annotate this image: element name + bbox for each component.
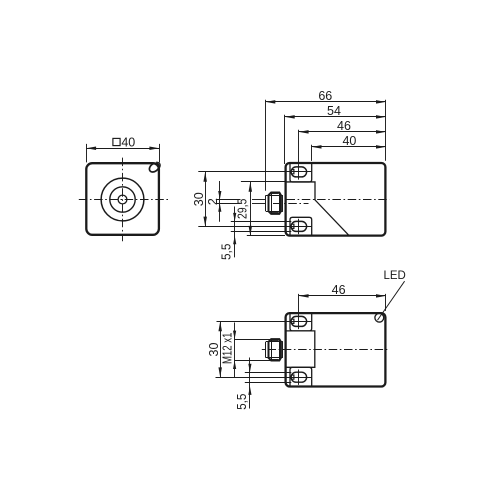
dimension 46 right extension line (top-face view) <box>385 294 387 311</box>
top-face view bottom slot lower edge extension line <box>245 382 291 384</box>
top-face view bottom mounting slot stadium <box>291 372 307 382</box>
dimension 30 line with arrows (slot spacing) <box>205 172 207 227</box>
side view top slot keyway notch <box>292 170 294 174</box>
top-face view top slot vertical centerline (46 extension) <box>298 294 300 329</box>
side view body bottom extension line <box>247 235 285 237</box>
side view recess floor edge with chamfer diagonal <box>285 182 349 235</box>
dimension 2 line (connector offset) <box>219 181 221 222</box>
dimension 46 line with arrows (top-face view) <box>299 295 386 297</box>
dimension 54 line with arrows <box>285 116 386 118</box>
side view body centerline extension for dim 2 <box>216 199 241 201</box>
top-face view connector boss step outline <box>286 331 315 367</box>
dimension 66 extension line at connector face <box>265 100 267 191</box>
dimension M12x1 bottom extension line <box>235 360 271 362</box>
svg-text:40: 40 <box>121 135 135 149</box>
LED indicator circle on corner <box>375 313 384 322</box>
side view housing body 54x40 <box>286 163 386 236</box>
top-face view bottom mounting pocket <box>290 367 312 385</box>
side view bottom slot vertical centerline <box>298 219 300 234</box>
dimension M12x1 line with outside arrows <box>234 323 236 378</box>
dimension 29.5 line with arrows <box>250 182 252 236</box>
top-face view top slot keyway notch <box>292 319 294 323</box>
dimension 5.5 line with outside arrows (top-face view) <box>249 358 251 409</box>
top-face view body centerline <box>262 349 266 351</box>
dimension squared-40 extension line right <box>159 144 161 163</box>
side view bottom slot horizontal centerline (30 and 5.5 extension) <box>198 226 311 228</box>
LED leader line <box>378 281 405 320</box>
side view connector flange face line <box>265 195 267 211</box>
svg-text:5,5: 5,5 <box>235 393 249 409</box>
front view small center circle <box>118 195 127 204</box>
dimension 46 line with arrows <box>299 131 386 133</box>
top-face view connector inner top line <box>266 341 283 343</box>
side view top mounting pocket <box>290 164 312 182</box>
dimension 5.5 line with outside arrows <box>234 207 236 258</box>
side view connector inner top line <box>266 195 283 197</box>
svg-text:2: 2 <box>206 198 220 205</box>
dimension squared-40 square symbol <box>113 138 120 145</box>
dimension 66 line with arrows <box>266 101 386 103</box>
svg-text:46: 46 <box>337 119 351 133</box>
top-face view connector nut flat edge right <box>279 339 281 360</box>
front view outer sensing-face circle <box>101 178 144 221</box>
svg-text:29,5: 29,5 <box>236 199 250 219</box>
front view LED window ellipse in top-right corner <box>148 161 161 174</box>
top-face view connector nut flat edge left <box>271 339 273 360</box>
side view M12 connector nut octagon <box>269 193 281 214</box>
front view housing 40x40 square body <box>86 163 159 235</box>
svg-text:40: 40 <box>342 134 356 148</box>
side view bottom slot lower edge extension line <box>231 231 291 233</box>
svg-text:30: 30 <box>207 343 221 357</box>
top-face view bottom slot upper edge extension line <box>245 372 291 374</box>
svg-text:66: 66 <box>318 89 332 103</box>
top-face view bottom slot keyway notch <box>292 375 294 379</box>
dimension squared-40 extension line left <box>86 144 88 163</box>
top-face view top slot horizontal centerline (30 extension) <box>217 321 312 323</box>
side view connector nut flat edge right <box>279 193 281 214</box>
top-face view connector inner bottom line <box>266 357 283 359</box>
top-face view M12 connector nut octagon <box>269 339 281 360</box>
side view connector collar line at body <box>282 195 284 211</box>
front view middle circle <box>110 187 135 212</box>
svg-text:54: 54 <box>327 104 341 118</box>
dimension 46 extension line at slot center <box>298 130 300 165</box>
dimension M12x1 top extension line <box>235 339 271 341</box>
svg-text:30: 30 <box>192 192 206 206</box>
top-face view connector thread window bottom line <box>272 359 279 361</box>
top-face view bottom slot vertical centerline <box>298 370 300 385</box>
side view body centerline <box>287 199 390 201</box>
dimension 30 line with arrows (top-face view) <box>220 321 222 377</box>
top-face view bottom slot horizontal centerline (30 and 5.5 extension) <box>216 377 312 379</box>
svg-text:5,5: 5,5 <box>219 244 233 260</box>
side view top slot vertical centerline <box>298 164 300 179</box>
side view bottom mounting pocket <box>290 217 312 235</box>
dimension squared-40 line with arrows <box>86 148 159 150</box>
side view connector thread window bottom line <box>272 212 279 214</box>
side view recess floor extension line <box>241 181 285 183</box>
dimension 54 extension line at body rear <box>284 115 286 164</box>
front view horizontal centerline <box>79 199 169 201</box>
side view bottom slot keyway notch <box>292 224 294 228</box>
front view LED window second edge arc <box>149 160 162 173</box>
svg-text:LED: LED <box>383 268 406 282</box>
dimension 40 line with arrows <box>312 146 386 148</box>
svg-text:46: 46 <box>332 283 346 297</box>
top-face view housing body <box>286 313 386 386</box>
side view connector thread window top line <box>272 193 279 195</box>
side view bottom slot upper edge extension line <box>231 221 291 223</box>
side view connector centerline offset 2mm <box>216 203 241 205</box>
front view vertical centerline <box>122 158 124 242</box>
side view connector inner bottom line <box>266 211 283 213</box>
top-face view connector flange face line <box>265 342 267 358</box>
top-face view connector collar line at body <box>282 342 284 358</box>
side view connector nut flat edge left <box>271 193 273 214</box>
top-face view top mounting pocket <box>290 314 312 331</box>
side view top slot horizontal centerline (30 extension) <box>198 171 311 173</box>
side view top mounting slot stadium <box>291 167 307 177</box>
top-face view top mounting slot stadium <box>291 316 307 326</box>
dimension right extension line at body front <box>385 100 387 161</box>
dimension 40 extension line at pocket edge <box>311 145 313 161</box>
side view bottom mounting slot stadium <box>291 221 307 231</box>
top-face view connector thread window top line <box>272 340 279 342</box>
svg-text:M12 x1: M12 x1 <box>221 333 235 365</box>
